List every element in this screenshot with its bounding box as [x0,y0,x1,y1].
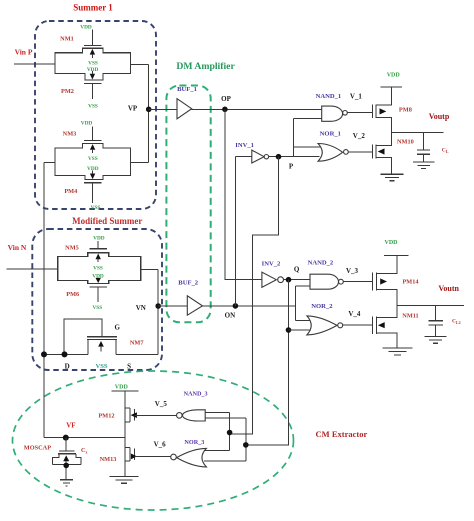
svg-text:PM6: PM6 [66,291,79,298]
svg-text:D: D [65,362,70,370]
svg-text:V_5: V_5 [155,400,168,408]
svg-text:VDD: VDD [92,273,104,279]
svg-text:S: S [127,363,131,371]
svg-text:Vin N: Vin N [8,243,27,252]
svg-text:Q: Q [294,266,300,274]
svg-text:Vin P: Vin P [15,47,33,56]
svg-text:VSS: VSS [88,156,98,162]
svg-text:NOR_3: NOR_3 [184,439,204,446]
svg-text:MOSCAP: MOSCAP [24,444,51,451]
svg-text:NM3: NM3 [63,131,77,138]
svg-text:VP: VP [128,105,138,113]
svg-text:V_4: V_4 [348,310,361,318]
svg-text:VDD: VDD [81,120,93,126]
svg-text:VDD: VDD [93,235,105,241]
svg-text:INV_1: INV_1 [235,142,254,149]
svg-text:INV_2: INV_2 [262,260,281,267]
svg-text:CM Extractor: CM Extractor [316,429,368,439]
svg-text:VDD: VDD [385,240,399,246]
svg-text:NM11: NM11 [402,312,418,319]
svg-text:Summer 1: Summer 1 [73,3,113,13]
svg-text:PM2: PM2 [61,88,74,95]
svg-text:VSS: VSS [93,265,103,271]
svg-text:VDD: VDD [87,166,99,172]
svg-text:G: G [114,323,120,331]
svg-text:VSS: VSS [91,205,101,211]
svg-text:NAND_3: NAND_3 [184,391,208,398]
svg-text:VSS: VSS [88,61,98,67]
svg-text:BUF_2: BUF_2 [178,279,198,286]
svg-text:P: P [289,162,294,170]
svg-text:DM Amplifier: DM Amplifier [176,61,235,72]
svg-text:NM13: NM13 [100,456,117,463]
svg-text:VDD: VDD [387,73,401,79]
svg-text:VF: VF [66,422,75,430]
svg-text:VSS: VSS [92,305,102,311]
svg-text:NM10: NM10 [397,138,414,145]
svg-text:V_6: V_6 [154,441,167,449]
svg-text:NM7: NM7 [130,339,144,346]
svg-text:ON: ON [225,311,236,319]
svg-text:VSS: VSS [95,363,107,370]
svg-text:VSS: VSS [88,104,98,110]
svg-text:NOR_2: NOR_2 [311,303,333,310]
svg-text:PM14: PM14 [402,278,419,285]
svg-text:VDD: VDD [87,67,99,73]
svg-text:V_1: V_1 [350,93,363,101]
svg-text:BUF_1: BUF_1 [177,86,197,93]
svg-text:PM4: PM4 [64,188,78,195]
svg-text:Voutp: Voutp [429,112,450,121]
svg-text:Voutn: Voutn [438,284,459,293]
svg-text:NM5: NM5 [65,245,79,252]
svg-text:VDD: VDD [115,385,129,391]
svg-text:PM12: PM12 [98,413,114,420]
svg-text:NAND_1: NAND_1 [316,93,342,100]
svg-text:VDD: VDD [80,24,92,30]
svg-text:NAND_2: NAND_2 [308,260,334,267]
svg-text:NOR_1: NOR_1 [320,131,341,138]
svg-text:L: L [446,149,449,154]
svg-text:OP: OP [221,95,231,103]
svg-text:VN: VN [136,304,146,312]
svg-text:Modified Summer: Modified Summer [72,216,142,226]
svg-text:V_3: V_3 [346,267,359,275]
svg-text:x: x [86,450,88,455]
svg-text:NM1: NM1 [60,36,74,43]
svg-text:L2: L2 [456,320,461,325]
svg-text:PM8: PM8 [399,107,412,114]
svg-text:V_2: V_2 [353,132,366,140]
